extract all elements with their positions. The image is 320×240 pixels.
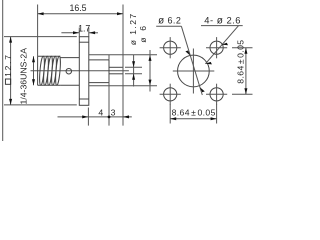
dim 16.5 <box>37 5 39 57</box>
thread spec dim <box>33 56 35 85</box>
dims 4 and 3 <box>87 108 89 126</box>
svg-text:3: 3 <box>111 107 116 117</box>
pin <box>109 66 123 68</box>
rear cylinder <box>89 60 109 83</box>
svg-text:1.7: 1.7 <box>78 24 90 34</box>
svg-text:4- ø 2.6: 4- ø 2.6 <box>204 15 241 27</box>
thread outline <box>38 56 61 85</box>
dim 1.7 <box>78 28 80 37</box>
dim o6 <box>149 50 151 92</box>
flange (side) <box>79 37 89 106</box>
svg-text:1/4-36UNS-2A: 1/4-36UNS-2A <box>19 48 29 105</box>
svg-text:4: 4 <box>98 107 103 117</box>
dim o1.27 <box>133 55 135 87</box>
centerline <box>31 70 129 72</box>
dim square 12.7 <box>4 36 77 38</box>
svg-text:16.5: 16.5 <box>69 3 86 13</box>
svg-text:ø 6: ø 6 <box>138 24 148 43</box>
svg-text:ø 1.27: ø 1.27 <box>128 12 138 45</box>
o6 extensions <box>89 54 157 56</box>
bottom dim 8.64 <box>169 104 171 123</box>
solder hole circle <box>66 68 72 74</box>
thread coils <box>39 56 62 85</box>
svg-text:8.64±0.05: 8.64±0.05 <box>172 108 216 118</box>
center cross <box>173 70 215 72</box>
svg-text:ø 6.2: ø 6.2 <box>158 16 181 27</box>
central circle <box>178 55 210 87</box>
body between thread and flange <box>60 58 79 86</box>
svg-text:12.7: 12.7 <box>3 53 13 77</box>
drawing border (left edge) <box>2 0 4 141</box>
right dim 8.64 <box>232 47 253 49</box>
hole crosses <box>160 37 228 105</box>
svg-text:8.64±0.05: 8.64±0.05 <box>236 40 246 84</box>
pin edge extensions <box>125 66 142 68</box>
holes <box>164 41 224 101</box>
